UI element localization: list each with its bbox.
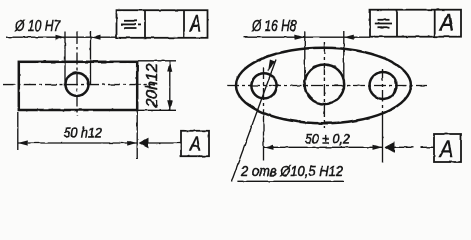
svg-text:20h12: 20h12	[144, 63, 161, 108]
svg-text:A: A	[189, 11, 201, 38]
svg-text:Ø 10 H7: Ø 10 H7	[14, 18, 61, 35]
svg-text:A: A	[438, 10, 454, 37]
svg-text:A: A	[189, 134, 201, 156]
svg-text:50 ± 0,2: 50 ± 0,2	[305, 131, 350, 146]
svg-text:2 отв Ø10,5 H12: 2 отв Ø10,5 H12	[240, 163, 343, 180]
svg-text:A: A	[438, 136, 453, 163]
svg-text:50 h12: 50 h12	[63, 126, 102, 142]
svg-text:Ø 16 H8: Ø 16 H8	[251, 18, 296, 35]
